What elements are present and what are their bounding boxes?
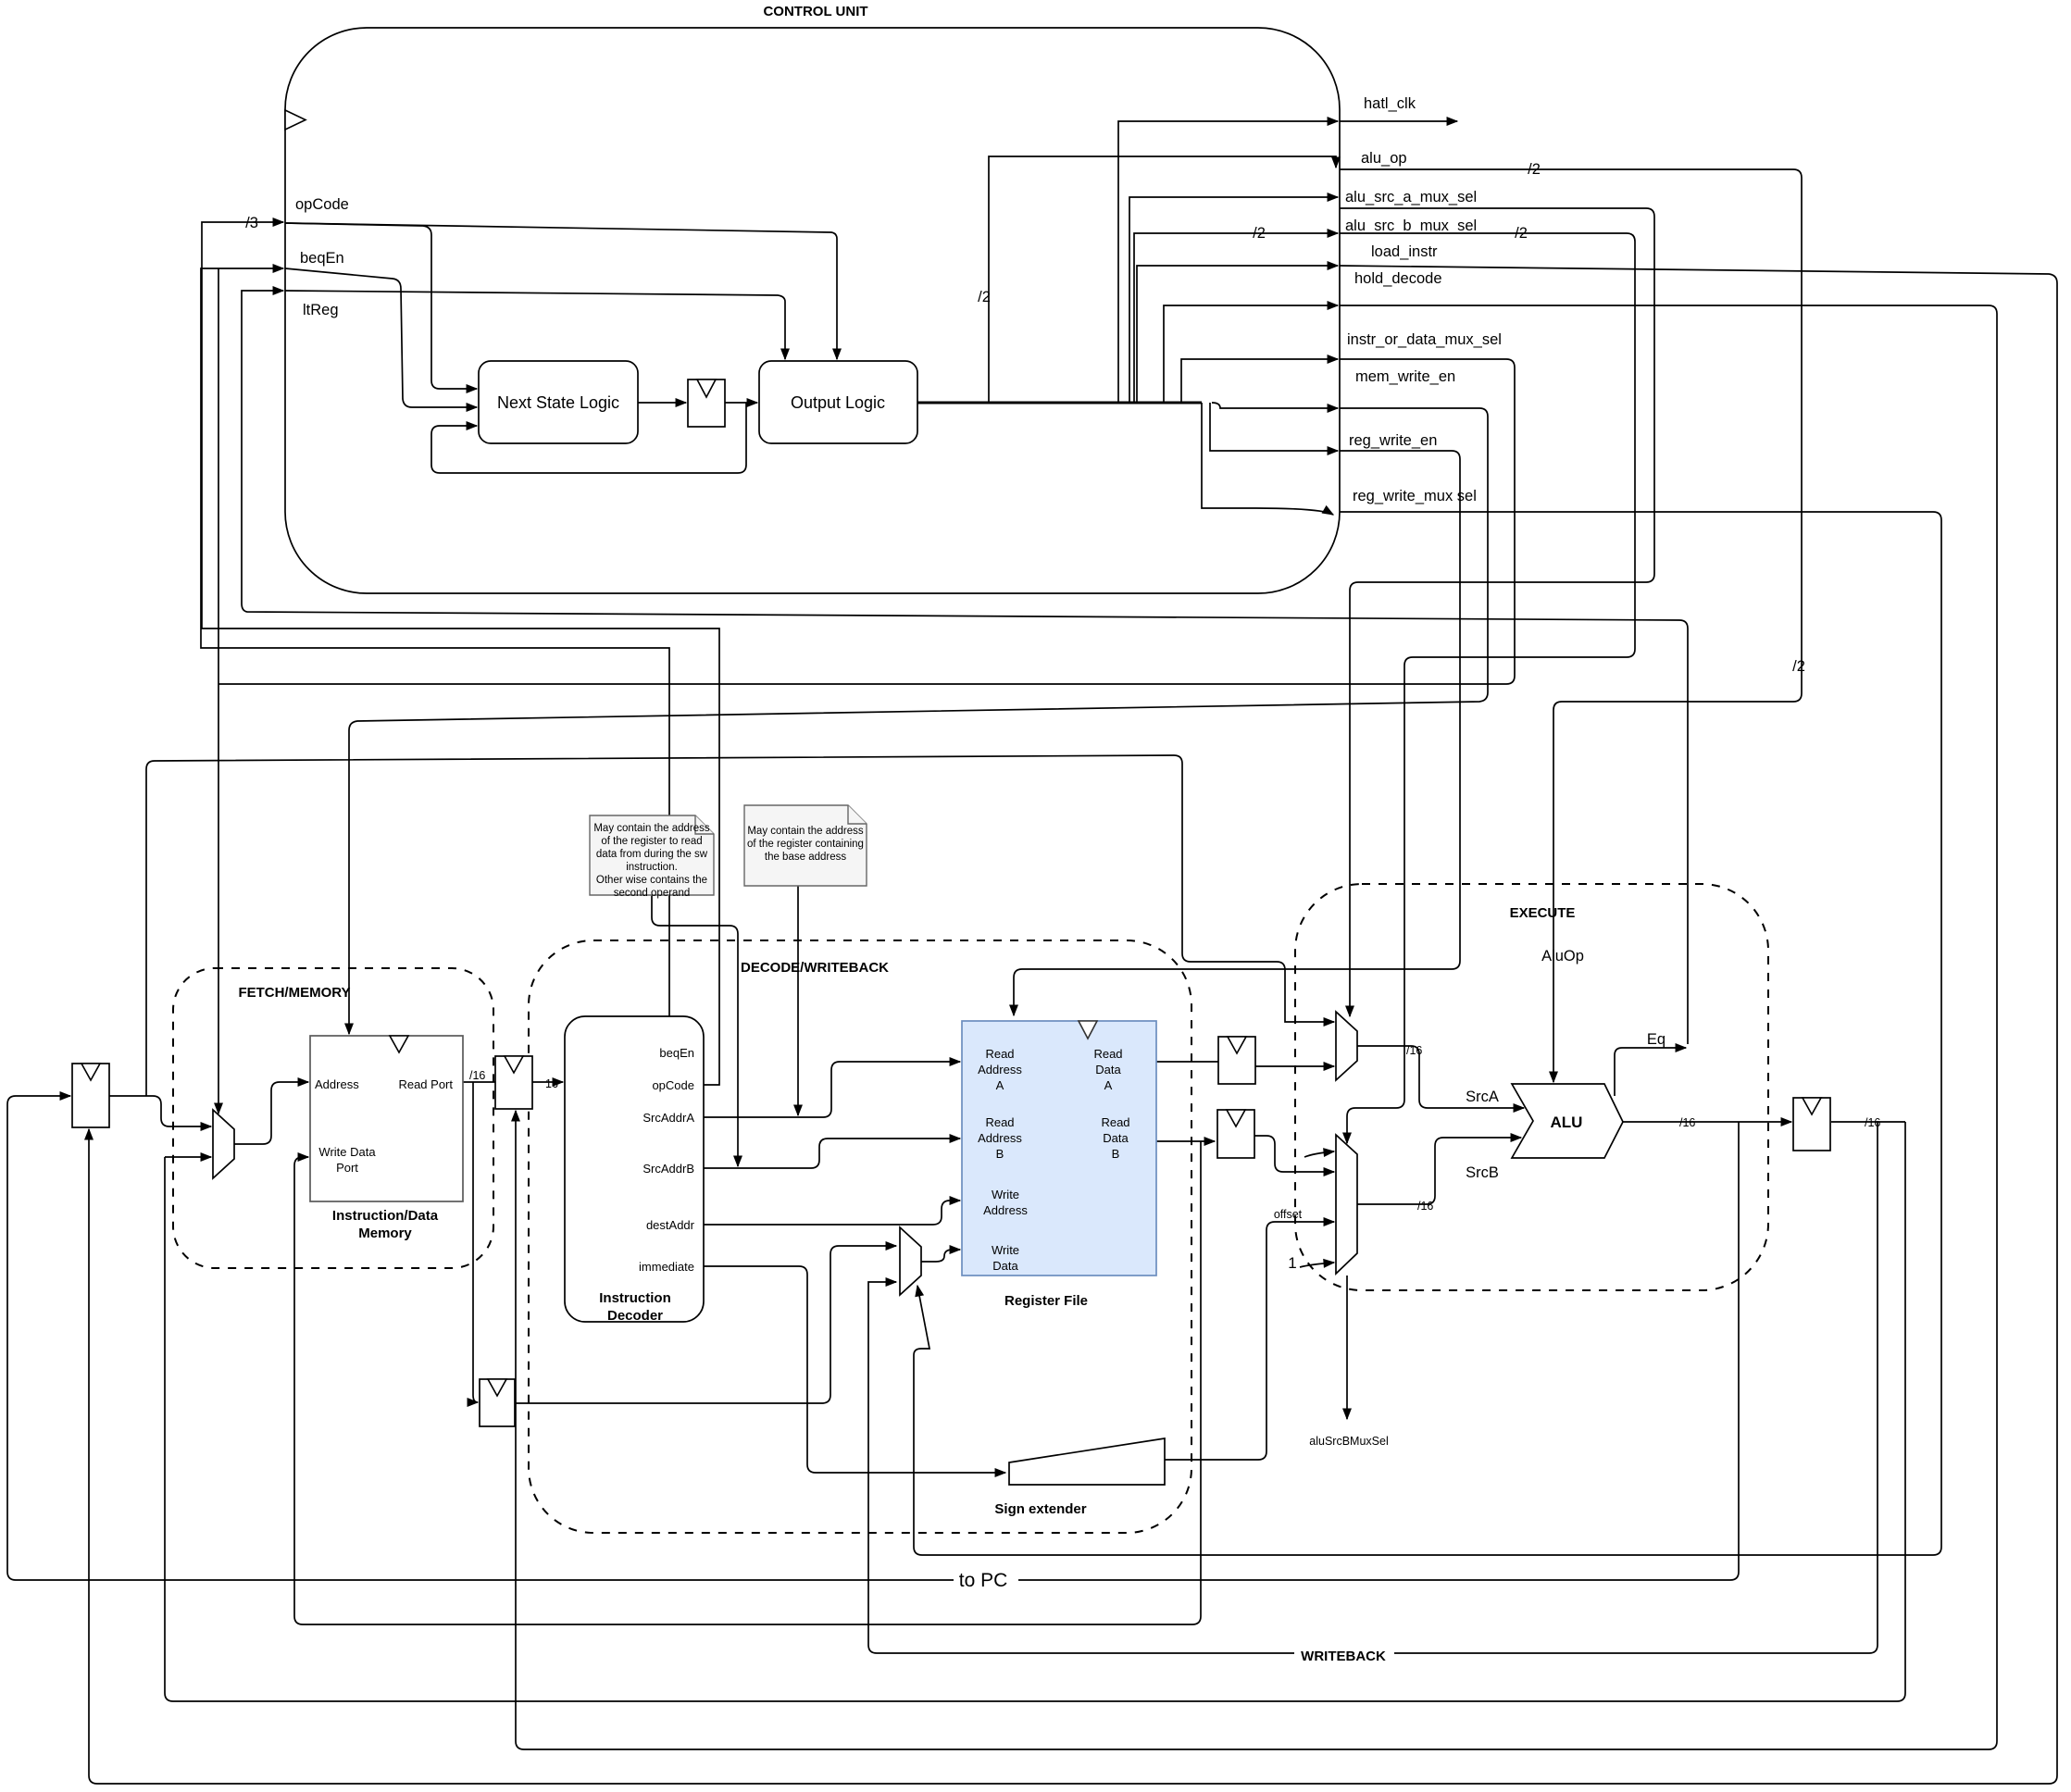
svg-text:Decoder: Decoder <box>607 1308 663 1324</box>
svg-text:Memory: Memory <box>358 1226 412 1241</box>
svg-text:data from during the sw: data from during the sw <box>596 849 708 860</box>
svg-text:opCode: opCode <box>652 1078 694 1092</box>
svg-text:Sign extender: Sign extender <box>994 1501 1086 1517</box>
svg-text:hatl_clk: hatl_clk <box>1364 95 1416 112</box>
svg-text:ALU: ALU <box>1551 1114 1583 1131</box>
svg-text:Eq: Eq <box>1647 1031 1666 1048</box>
svg-text:aluSrcBMuxSel: aluSrcBMuxSel <box>1309 1435 1388 1448</box>
svg-text:/2: /2 <box>978 289 991 305</box>
svg-text:Next State Logic: Next State Logic <box>497 393 619 412</box>
svg-text:WRITEBACK: WRITEBACK <box>1301 1649 1386 1664</box>
svg-text:FETCH/MEMORY: FETCH/MEMORY <box>238 985 350 1001</box>
svg-text:DECODE/WRITEBACK: DECODE/WRITEBACK <box>741 960 889 976</box>
svg-text:AluOp: AluOp <box>1541 948 1584 964</box>
svg-text:Data: Data <box>1095 1063 1121 1076</box>
svg-text:opCode: opCode <box>295 196 349 213</box>
svg-text:Address: Address <box>983 1203 1028 1217</box>
svg-text:/2: /2 <box>1792 658 1805 675</box>
svg-text:ltReg: ltReg <box>303 302 339 318</box>
svg-text:Read Port: Read Port <box>398 1077 453 1091</box>
svg-text:A: A <box>996 1078 1004 1092</box>
svg-text:Address: Address <box>315 1077 359 1091</box>
svg-text:alu_src_b_mux_sel: alu_src_b_mux_sel <box>1345 218 1477 234</box>
svg-text:beqEn: beqEn <box>300 250 344 267</box>
svg-text:Instruction/Data: Instruction/Data <box>332 1208 439 1224</box>
svg-text:Register File: Register File <box>1004 1293 1088 1309</box>
svg-text:alu_src_a_mux_sel: alu_src_a_mux_sel <box>1345 189 1477 205</box>
svg-text:Data: Data <box>992 1259 1018 1273</box>
svg-text:/16: /16 <box>1679 1116 1695 1129</box>
svg-text:1: 1 <box>1288 1254 1296 1272</box>
svg-text:reg_write_mux sel: reg_write_mux sel <box>1353 488 1477 504</box>
svg-text:A: A <box>1104 1078 1113 1092</box>
svg-text:/3: /3 <box>245 215 258 231</box>
svg-text:Read: Read <box>1101 1115 1129 1129</box>
svg-text:mem_write_en: mem_write_en <box>1355 368 1455 385</box>
svg-text:reg_write_en: reg_write_en <box>1349 432 1437 449</box>
svg-text:Other wise contains the: Other wise contains the <box>596 875 707 886</box>
svg-text:/16: /16 <box>1417 1200 1433 1213</box>
svg-text:immediate: immediate <box>639 1260 694 1274</box>
svg-text:/2: /2 <box>1515 225 1528 242</box>
svg-text:Data: Data <box>1103 1131 1129 1145</box>
svg-text:alu_op: alu_op <box>1361 150 1407 167</box>
svg-text:CONTROL UNIT: CONTROL UNIT <box>763 4 867 19</box>
svg-text:of the register containing: of the register containing <box>747 839 864 850</box>
svg-text:SrcAddrB: SrcAddrB <box>643 1162 694 1176</box>
svg-text:instruction.: instruction. <box>626 862 678 873</box>
svg-text:Address: Address <box>978 1063 1022 1076</box>
svg-text:second operand: second operand <box>614 888 690 899</box>
svg-text:16: 16 <box>545 1077 558 1090</box>
svg-text:/16: /16 <box>1865 1116 1880 1129</box>
svg-text:EXECUTE: EXECUTE <box>1510 905 1576 921</box>
svg-text:Read: Read <box>985 1047 1014 1061</box>
svg-text:/2: /2 <box>1528 161 1541 178</box>
svg-text:of the register to read: of the register to read <box>601 836 702 847</box>
svg-text:/2: /2 <box>1253 225 1266 242</box>
svg-text:Instruction: Instruction <box>599 1290 671 1306</box>
svg-text:beqEn: beqEn <box>659 1046 694 1060</box>
svg-text:destAddr: destAddr <box>646 1218 695 1232</box>
svg-text:the base address: the base address <box>765 852 846 863</box>
svg-text:Write Data: Write Data <box>318 1145 376 1159</box>
svg-text:Write: Write <box>992 1243 1019 1257</box>
svg-text:Read: Read <box>1093 1047 1122 1061</box>
svg-text:Write: Write <box>992 1188 1019 1201</box>
svg-text:Read: Read <box>985 1115 1014 1129</box>
svg-text:offset: offset <box>1274 1208 1303 1221</box>
svg-text:May contain the address: May contain the address <box>593 823 710 834</box>
svg-text:load_instr: load_instr <box>1371 243 1438 260</box>
svg-text:instr_or_data_mux_sel: instr_or_data_mux_sel <box>1347 331 1502 348</box>
svg-text:to PC: to PC <box>959 1570 1008 1591</box>
svg-text:Port: Port <box>336 1161 358 1175</box>
svg-text:SrcB: SrcB <box>1466 1164 1499 1181</box>
svg-text:SrcAddrA: SrcAddrA <box>643 1111 694 1125</box>
svg-text:May contain the address: May contain the address <box>747 826 864 837</box>
svg-text:/16: /16 <box>1406 1044 1422 1057</box>
svg-text:B: B <box>1112 1147 1120 1161</box>
svg-text:hold_decode: hold_decode <box>1354 270 1442 287</box>
svg-text:SrcA: SrcA <box>1466 1089 1499 1105</box>
svg-text:B: B <box>996 1147 1004 1161</box>
svg-text:/16: /16 <box>469 1069 485 1082</box>
svg-text:Output Logic: Output Logic <box>791 393 885 412</box>
svg-text:Address: Address <box>978 1131 1022 1145</box>
